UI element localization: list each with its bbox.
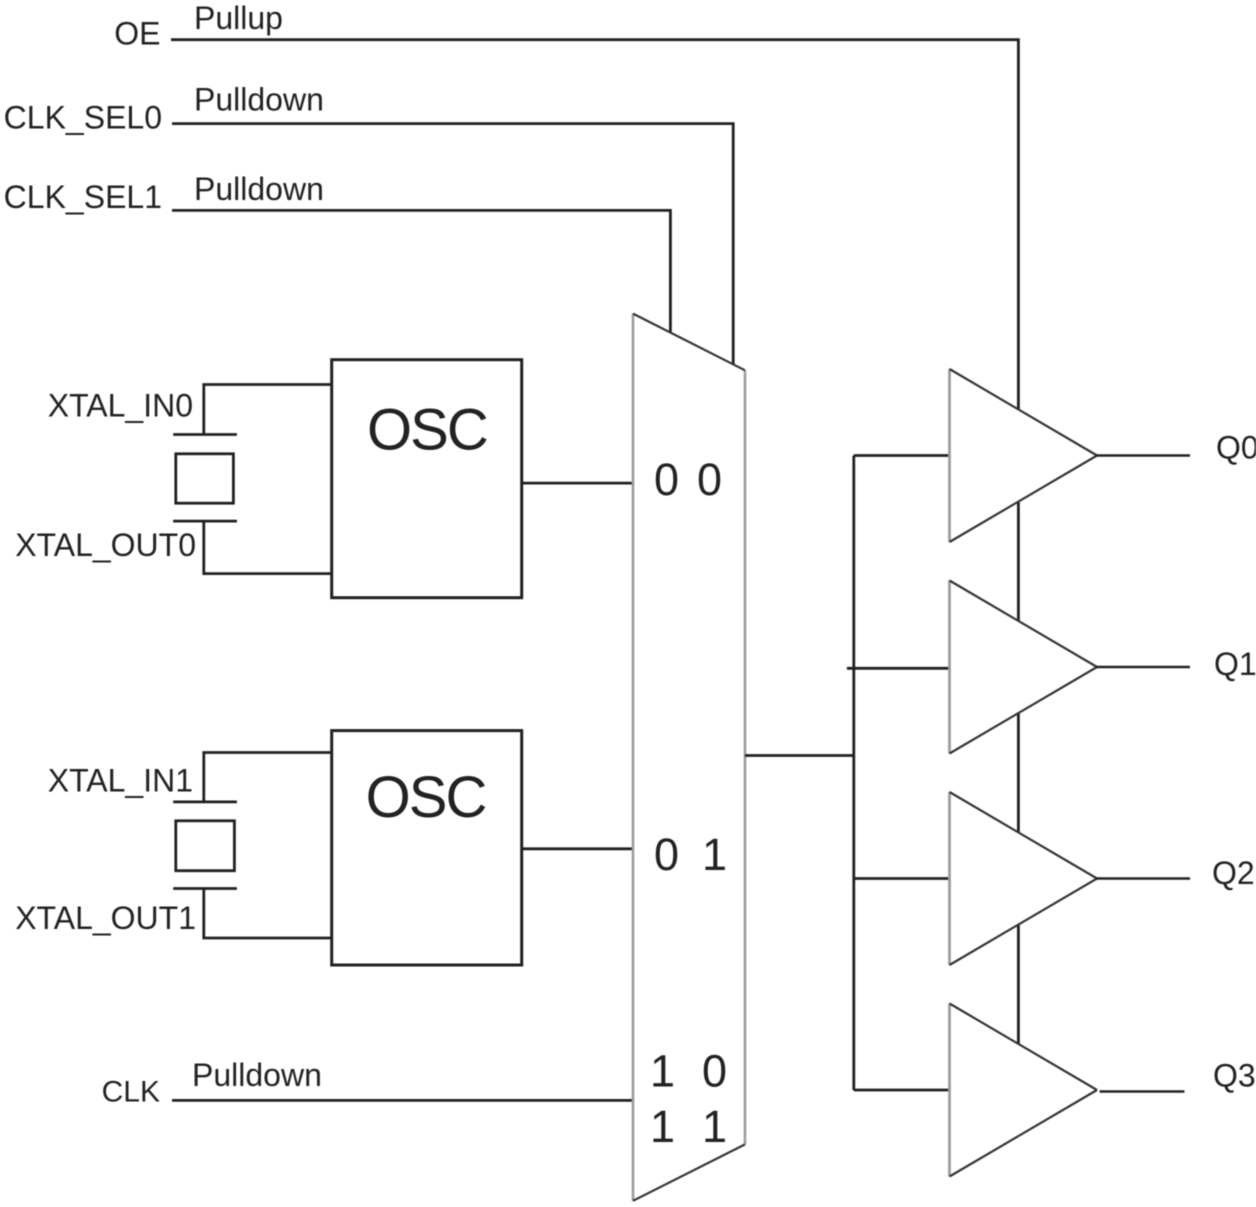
wire Q0 output xyxy=(1096,454,1190,456)
oscillator U1 box xyxy=(332,360,522,598)
svg-text:1: 1 xyxy=(650,1046,675,1097)
svg-text:Pullup: Pullup xyxy=(194,0,283,36)
svg-text:XTAL_IN0: XTAL_IN0 xyxy=(48,388,193,424)
crystal Y0 bottom plate xyxy=(173,520,237,523)
svg-text:1: 1 xyxy=(702,829,727,880)
svg-text:Q0: Q0 xyxy=(1216,430,1256,466)
svg-text:XTAL_OUT1: XTAL_OUT1 xyxy=(15,900,196,936)
svg-text:OSC: OSC xyxy=(366,765,486,830)
svg-text:Q1: Q1 xyxy=(1214,646,1256,682)
crystal Y1 body xyxy=(176,821,235,871)
wire buffer Q3 input xyxy=(854,1089,951,1092)
buffer U7 (Q3) xyxy=(950,1004,1098,1177)
wire oscillator U2 output to mux input 01 xyxy=(522,847,633,850)
mux select code 0 1 (input from oscillator U2) xyxy=(654,829,727,880)
wire OE net from label to buffer enables xyxy=(171,40,1018,1046)
buffer U6 (Q2) xyxy=(950,792,1098,965)
svg-text:0: 0 xyxy=(702,1046,727,1097)
wire CLK_SEL1 to mux select xyxy=(172,210,670,337)
wire XTAL_IN0 to oscillator U1 xyxy=(204,385,332,436)
svg-text:0: 0 xyxy=(654,454,679,505)
svg-text:1: 1 xyxy=(702,1101,727,1152)
svg-text:XTAL_OUT0: XTAL_OUT0 xyxy=(15,527,196,563)
wire mux output to clock bus xyxy=(745,754,854,757)
mux select code 0 0 (input from oscillator U1) xyxy=(654,454,722,505)
wire clock distribution bus (vertical) xyxy=(852,456,855,1091)
wire oscillator U1 output to mux input 00 xyxy=(522,482,633,485)
svg-text:CLK_SEL0: CLK_SEL0 xyxy=(4,100,162,136)
wire XTAL_OUT1 to oscillator U2 xyxy=(204,889,332,939)
svg-text:CLK: CLK xyxy=(102,1076,160,1109)
crystal Y1 top plate xyxy=(173,801,237,804)
buffer U5 (Q1) xyxy=(950,581,1098,754)
wire buffer Q1 input (junction tick crosses bus) xyxy=(847,667,951,670)
oscillator U2 box xyxy=(332,731,522,965)
buffer U4 (Q0) xyxy=(950,369,1098,542)
svg-text:0: 0 xyxy=(654,829,679,880)
wire Q2 output xyxy=(1096,877,1190,879)
mux U3 body xyxy=(633,314,745,1201)
crystal Y0 body xyxy=(176,454,234,503)
wire Q1 output xyxy=(1096,666,1190,668)
svg-text:1: 1 xyxy=(650,1101,675,1152)
wire CLK_SEL0 to mux select xyxy=(172,124,733,370)
svg-text:Pulldown: Pulldown xyxy=(192,1057,322,1093)
wire Q3 output xyxy=(1100,1090,1185,1092)
mux select code 1 0 (input from CLK) xyxy=(650,1046,727,1097)
svg-text:Q2: Q2 xyxy=(1212,855,1255,891)
svg-text:CLK_SEL1: CLK_SEL1 xyxy=(4,179,162,215)
mux select code 1 1 (input from CLK) xyxy=(650,1101,727,1152)
svg-text:XTAL_IN1: XTAL_IN1 xyxy=(48,763,193,799)
svg-text:Pulldown: Pulldown xyxy=(194,82,324,118)
crystal Y0 top plate xyxy=(173,433,237,436)
crystal Y1 bottom plate xyxy=(173,887,237,890)
wire XTAL_IN1 to oscillator U2 xyxy=(204,753,332,803)
svg-text:OE: OE xyxy=(114,16,160,52)
wire buffer Q0 input xyxy=(854,454,950,457)
svg-text:Pulldown: Pulldown xyxy=(194,171,324,207)
wire buffer Q2 input xyxy=(854,877,951,880)
wire XTAL_OUT0 to oscillator U1 xyxy=(204,521,332,574)
svg-text:Q3: Q3 xyxy=(1213,1058,1256,1094)
svg-text:OSC: OSC xyxy=(367,398,487,463)
wire CLK to mux inputs 10 and 11 xyxy=(172,1099,633,1102)
svg-text:0: 0 xyxy=(697,454,722,505)
